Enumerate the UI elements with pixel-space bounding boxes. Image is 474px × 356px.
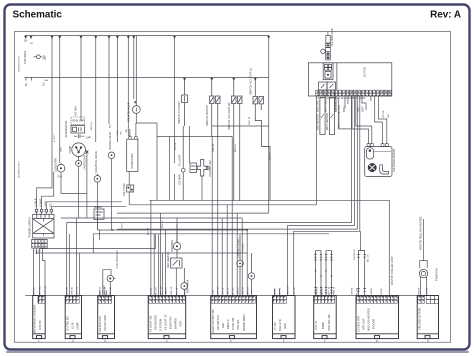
defrost switch S5 — [171, 258, 182, 268]
svg-text:DR SWITCH: DR SWITCH — [216, 315, 220, 330]
svg-text:ICE DR: ICE DR — [383, 110, 385, 118]
connector J9 — [417, 296, 438, 339]
svg-text:B+: B+ — [24, 82, 28, 86]
svg-text:FZ LIGHT SW: FZ LIGHT SW — [149, 315, 153, 332]
svg-text:GRN 18: GRN 18 — [288, 286, 290, 295]
junction dot A — [111, 229, 113, 231]
svg-text:GRN 16: GRN 16 — [334, 286, 336, 295]
svg-text:CC DRN HTR: CC DRN HTR — [356, 316, 360, 332]
condenser motor M2 — [57, 163, 65, 172]
wire drop x81 to alternator — [80, 36, 82, 122]
second bus junction arrows — [183, 78, 257, 81]
svg-text:GRY 18: GRY 18 — [110, 286, 112, 294]
svg-text:PANTRY ROLLER ASSY: PANTRY ROLLER ASSY — [390, 256, 394, 285]
ice door motor M4 — [365, 147, 392, 177]
svg-text:HZ: HZ — [43, 57, 47, 61]
svg-text:TAN/W: TAN/W — [370, 287, 373, 295]
wire board west line C — [117, 96, 357, 229]
svg-text:WHT: WHT — [122, 222, 124, 228]
svg-text:COMP: COMP — [75, 322, 79, 330]
wire water valve down — [111, 159, 113, 230]
svg-text:CABINET LIGHT: CABINET LIGHT — [236, 238, 240, 258]
svg-text:EVAP FAN: EVAP FAN — [169, 316, 173, 329]
svg-text:SCHEM NOTE 2: SCHEM NOTE 2 — [19, 161, 21, 178]
svg-text:DC: DC — [49, 203, 53, 207]
svg-text:YEL/BLK: YEL/BLK — [243, 243, 245, 252]
svg-text:ICE BOX FAN: ICE BOX FAN — [98, 316, 102, 332]
fuse F1 — [327, 32, 329, 36]
svg-text:GRY: GRY — [361, 106, 365, 112]
overload protector — [76, 157, 82, 167]
condenser fan loop — [103, 270, 111, 276]
wire sparkle down — [86, 154, 88, 218]
svg-text:BLK 16: BLK 16 — [322, 287, 324, 295]
svg-text:ORG 18: ORG 18 — [171, 286, 173, 295]
junction dot C — [36, 252, 38, 254]
svg-text:AC PCB: AC PCB — [363, 67, 367, 77]
riser wires box D — [151, 200, 177, 295]
svg-text:ALTERNATOR: ALTERNATOR — [64, 120, 68, 137]
svg-text:115V 60HZ: 115V 60HZ — [23, 51, 27, 64]
wire drop x135.25 to valve — [135, 36, 137, 106]
svg-text:LT CTRL BD: LT CTRL BD — [65, 316, 69, 331]
svg-text:L1 BLK: L1 BLK — [34, 198, 38, 207]
svg-text:ORG: ORG — [61, 147, 63, 152]
wire board pin a — [316, 96, 318, 205]
svg-text:ISOLATION VALVE: ISOLATION VALVE — [94, 151, 98, 174]
svg-text:OVERLOAD: OVERLOAD — [83, 155, 87, 170]
svg-text:1 2 3 4 5: 1 2 3 4 5 — [33, 251, 42, 253]
svg-text:FZ LIGHT SC: FZ LIGHT SC — [164, 314, 168, 330]
switch S2 pair (SWITCH PANTRY) — [210, 78, 221, 137]
svg-text:VIO 16: VIO 16 — [222, 287, 224, 295]
svg-text:GRY: GRY — [117, 130, 119, 135]
svg-text:SWITCH TO LIGHT: SWITCH TO LIGHT — [177, 101, 181, 124]
lamp L4 — [321, 49, 325, 53]
heater loop HL2 — [325, 251, 333, 296]
bus junction arrows — [24, 36, 270, 39]
svg-text:GRY 16: GRY 16 — [217, 286, 219, 294]
svg-text:YELLOW GUTTER: YELLOW GUTTER — [418, 308, 422, 330]
wire board west line D — [294, 96, 360, 296]
riser wires box F — [275, 289, 280, 296]
thermostat TH1 — [127, 185, 134, 192]
wire board west line A — [67, 96, 352, 223]
svg-text:ICE WTR VALVE: ICE WTR VALVE — [126, 102, 130, 122]
svg-text:ICE MKR PWR: ICE MKR PWR — [330, 28, 334, 46]
svg-text:GRN/YEL: GRN/YEL — [45, 284, 47, 294]
alternator U1 — [71, 126, 85, 133]
aux lamp L3 — [248, 253, 254, 296]
svg-text:GRY/W: GRY/W — [427, 286, 429, 294]
svg-text:RUN CAP: RUN CAP — [73, 119, 85, 123]
wire dispenser down — [128, 171, 130, 185]
wire mid v157 — [156, 137, 158, 201]
wire mid v189.5 — [189, 126, 191, 163]
svg-text:BLU 18: BLU 18 — [156, 287, 158, 295]
wire elbow to motor pin3 — [375, 96, 383, 144]
routing line l4 — [98, 229, 248, 231]
svg-text:PUMP FAN: PUMP FAN — [434, 268, 438, 281]
svg-text:BRN 18: BRN 18 — [235, 144, 237, 152]
svg-text:GRY/W 18: GRY/W 18 — [354, 249, 356, 260]
svg-text:BRN: BRN — [342, 106, 346, 112]
connector J2 — [65, 296, 81, 339]
wire board stub d — [362, 96, 366, 110]
wire iso valve down — [96, 182, 98, 230]
svg-text:SCHEM NOTE 1: SCHEM NOTE 1 — [19, 55, 21, 72]
svg-text:DEF HEATER: DEF HEATER — [166, 252, 170, 268]
svg-text:BLK 18: BLK 18 — [148, 227, 150, 235]
second bus ticks — [26, 78, 32, 81]
svg-text:LED: LED — [221, 323, 225, 328]
svg-text:WHT 18: WHT 18 — [161, 286, 163, 295]
svg-text:BLK 14: BLK 14 — [34, 287, 36, 295]
svg-text:YEL 18: YEL 18 — [175, 142, 177, 150]
pantry LED DS1 — [190, 160, 209, 177]
wire board west line B — [288, 96, 355, 296]
svg-text:GRD: GRD — [283, 323, 287, 329]
svg-text:DR HEATER: DR HEATER — [154, 315, 158, 330]
board pin header row1 — [316, 90, 391, 93]
power supply PS1 — [33, 214, 54, 238]
svg-text:WHT NL: WHT NL — [77, 286, 79, 295]
wire h123 drop — [156, 123, 158, 137]
svg-text:B- WHT: B- WHT — [54, 134, 56, 142]
svg-text:WHT 16: WHT 16 — [329, 286, 331, 295]
svg-text:WHT HEATER: WHT HEATER — [325, 113, 329, 130]
relay K1 — [319, 82, 328, 90]
wire drop x109 to water valve — [108, 36, 110, 125]
wires pump fan down — [421, 219, 427, 296]
riser wires box B — [67, 218, 80, 296]
cabinet light L2 — [237, 234, 244, 295]
svg-text:CAP: CAP — [86, 136, 92, 140]
svg-text:Rev: A: Rev: A — [430, 9, 461, 20]
wire drop x174.5 — [174, 36, 176, 164]
svg-text:VIO: VIO — [356, 108, 360, 112]
svg-text:PNK: PNK — [185, 290, 187, 295]
svg-text:BLK LINE: BLK LINE — [315, 100, 319, 112]
pump fan loop — [420, 261, 428, 269]
upper mid horizontal h136 — [157, 136, 232, 138]
svg-text:HTR OUT: HTR OUT — [361, 318, 365, 330]
compressor motor M1 — [72, 143, 86, 157]
wire cond down — [61, 172, 87, 193]
wires power supply down — [34, 248, 46, 295]
svg-text:RED 18: RED 18 — [100, 286, 102, 294]
wire drop x52 to power supply — [37, 36, 52, 210]
pin dot overlays — [32, 90, 425, 303]
connector J4 — [148, 296, 186, 339]
svg-text:RED 14: RED 14 — [91, 122, 93, 130]
motor duct — [380, 165, 389, 174]
routing line l2 — [117, 212, 269, 214]
wire valve V3 down — [136, 113, 157, 123]
switch S4 pair (SWITCH NC LIGHT L) — [253, 78, 270, 201]
svg-text:DAMPER: DAMPER — [174, 318, 178, 329]
svg-text:ICE DOOR MOTOR: ICE DOOR MOTOR — [392, 149, 396, 172]
svg-text:N WHT: N WHT — [39, 198, 43, 207]
riser wires box C — [100, 230, 107, 296]
junction dot B — [246, 229, 248, 231]
wire board stub e — [370, 96, 372, 101]
svg-text:GRN 18: GRN 18 — [213, 143, 215, 152]
wire drop x117.4 — [116, 36, 118, 143]
svg-text:SIG: SIG — [388, 114, 390, 118]
svg-text:COMP: COMP — [68, 145, 72, 153]
wire board stub c — [347, 96, 349, 104]
wire defrost down — [175, 268, 177, 296]
relay K2 — [327, 82, 336, 90]
wire led down — [201, 176, 203, 200]
svg-text:COND MTR: COND MTR — [53, 158, 57, 172]
wire thermostat down — [128, 192, 130, 205]
heater loop HL1 — [314, 251, 322, 296]
capacitor C1 — [74, 134, 84, 138]
wire drop x95.75 to isolation valve — [95, 36, 97, 143]
svg-text:LIGHT PANTRY SW: LIGHT PANTRY SW — [211, 309, 215, 333]
power supply feed w4 — [51, 207, 126, 210]
svg-text:BLK HEATER: BLK HEATER — [316, 114, 320, 130]
wire HL3 feed — [359, 231, 361, 250]
dispenser top pins — [129, 137, 138, 140]
svg-text:RAIL HTR: RAIL HTR — [278, 319, 282, 331]
connector J3 — [98, 296, 115, 339]
power supply lower header — [32, 239, 47, 248]
svg-text:WATER VALVE: WATER VALVE — [108, 131, 112, 149]
wire elbow to motor pin2 — [356, 96, 372, 144]
svg-text:TAN: TAN — [125, 128, 128, 133]
dispenser A1 — [127, 139, 138, 171]
svg-text:DISPENSER: DISPENSER — [130, 153, 134, 168]
condenser fan motor M3 — [103, 275, 116, 295]
border bottom shadow — [6, 351, 469, 353]
svg-text:VIO 18: VIO 18 — [177, 287, 179, 295]
wire mid v169.5 — [169, 137, 171, 201]
svg-text:BLU 18: BLU 18 — [368, 254, 370, 262]
svg-text:WHT/B: WHT/B — [280, 287, 282, 295]
connector J7 — [314, 296, 337, 339]
wire elbow to motor pin1 — [352, 96, 369, 144]
svg-text:STAT: STAT — [179, 320, 183, 327]
switch S1 box (SWITCH TO LIGHT) — [182, 78, 188, 127]
svg-text:AC: AC — [42, 82, 46, 86]
svg-text:LT J10: LT J10 — [273, 322, 277, 330]
rheostat R1 — [94, 209, 104, 219]
svg-text:KEEP R: KEEP R — [226, 319, 230, 329]
svg-text:1 3 5 7 9 11 13 15 17 19 21 23: 1 3 5 7 9 11 13 15 17 19 21 23 25 27 29 … — [316, 96, 366, 100]
power supply top pins — [35, 209, 52, 214]
svg-text:FLA: FLA — [58, 175, 63, 179]
connector J1 — [33, 296, 46, 339]
svg-text:5A: 5A — [24, 39, 27, 43]
routing line l7 — [93, 234, 329, 253]
svg-text:Schematic: Schematic — [13, 9, 63, 20]
wire drop x133.8 — [133, 36, 135, 100]
svg-text:RED BL: RED BL — [316, 286, 318, 295]
svg-text:PANTRY MULLION HEATER: PANTRY MULLION HEATER — [419, 216, 423, 250]
svg-text:MOLD ICE MOTOR: MOLD ICE MOTOR — [337, 105, 341, 128]
svg-text:BLU/W: BLU/W — [357, 287, 359, 295]
svg-text:PANTRY LED: PANTRY LED — [208, 160, 212, 176]
routing line l9 — [37, 252, 248, 254]
svg-text:BLU 16: BLU 16 — [232, 287, 234, 295]
sparkle junction — [85, 150, 88, 154]
wire drop x128.3 to dispenser pin1 — [128, 36, 130, 137]
valve V3 top — [132, 106, 140, 114]
svg-text:ORG/B: ORG/B — [351, 287, 353, 295]
power supply feed w3 — [46, 202, 122, 210]
svg-text:MAKER BRKT: MAKER BRKT — [242, 314, 246, 331]
svg-text:VIO/W: VIO/W — [381, 287, 383, 294]
svg-text:MONEYBAR COOLERS: MONEYBAR COOLERS — [33, 304, 37, 333]
svg-text:VIO: VIO — [121, 131, 123, 135]
svg-text:STIR PDL SW: STIR PDL SW — [327, 314, 331, 331]
alternator cap dashed box — [71, 117, 85, 124]
svg-text:CD FAN GRD: CD FAN GRD — [103, 315, 107, 331]
svg-text:BLK RD: BLK RD — [67, 286, 69, 294]
svg-text:LT DR SW: LT DR SW — [231, 317, 235, 330]
svg-text:LT R J1: LT R J1 — [314, 321, 318, 330]
svg-text:BRN 18: BRN 18 — [105, 286, 107, 294]
svg-text:BRN 16: BRN 16 — [247, 286, 249, 294]
motor rotor — [368, 163, 376, 171]
second bus — [25, 77, 270, 79]
svg-text:ICE TSTAT: ICE TSTAT — [122, 183, 126, 196]
svg-text:CCM: CCM — [212, 290, 214, 295]
svg-text:ICE MKR: ICE MKR — [178, 174, 182, 185]
connector J8 — [356, 296, 399, 339]
svg-text:115V 60: 115V 60 — [38, 320, 42, 330]
power supply feed w2 — [42, 172, 54, 209]
connector strip J10 — [326, 44, 331, 61]
svg-text:BLK/W: BLK/W — [275, 287, 277, 295]
board pin header row2 — [316, 93, 391, 96]
freezer sensor B1 — [173, 224, 180, 258]
svg-text:30A: 30A — [44, 79, 48, 82]
svg-text:RED 18: RED 18 — [270, 152, 272, 160]
svg-text:WHT 14: WHT 14 — [40, 286, 42, 295]
svg-text:L2 J4: L2 J4 — [70, 322, 74, 329]
control board U2 — [308, 63, 391, 96]
connector J6 — [273, 296, 296, 339]
routing line l10 — [61, 217, 242, 219]
svg-text:FREEZER: FREEZER — [170, 240, 174, 252]
svg-text:RED/W: RED/W — [419, 287, 421, 295]
routing line r1 — [150, 200, 390, 295]
rail wire labels — [34, 284, 429, 294]
pump fan M5 — [419, 269, 427, 277]
svg-text:ALT 40A: ALT 40A — [74, 106, 78, 116]
routing line l8 — [40, 234, 156, 249]
FL light L1 — [181, 126, 185, 200]
motor top pins — [367, 144, 388, 147]
top power bus — [25, 35, 270, 37]
wire mold ice motor — [338, 98, 351, 129]
bottom rail — [25, 295, 438, 297]
wire bus end drop x268.75 — [268, 36, 270, 214]
svg-text:YEL/BL: YEL/BL — [151, 287, 153, 295]
svg-text:PNK 18: PNK 18 — [162, 220, 164, 228]
battery symbol — [34, 55, 42, 59]
svg-text:ORG 18: ORG 18 — [249, 116, 251, 125]
riser wires box E — [212, 137, 247, 296]
wire board stub b — [344, 96, 346, 108]
upper mid horizontal h126 — [212, 125, 269, 127]
svg-text:SWITCH PANTRY: SWITCH PANTRY — [205, 104, 209, 126]
svg-text:GRD: GRD — [44, 201, 48, 207]
svg-text:D SCREW: D SCREW — [159, 318, 163, 331]
wire overload down — [78, 166, 80, 218]
wire drop x59.75 to cond motor — [59, 36, 61, 164]
wire board stub a — [335, 96, 337, 112]
svg-text:MULLION HEATER: MULLION HEATER — [366, 308, 370, 331]
svg-text:SWITCH NC LIGHT (L): SWITCH NC LIGHT (L) — [249, 68, 253, 95]
svg-text:STE VAL: STE VAL — [236, 319, 240, 330]
svg-text:BRKR: BRKR — [321, 322, 325, 329]
svg-text:B DOOR: B DOOR — [371, 319, 375, 329]
svg-text:POWER SUPPLY: POWER SUPPLY — [28, 217, 32, 238]
heater leg H2 — [329, 98, 334, 135]
svg-text:TAN 16: TAN 16 — [236, 287, 239, 295]
svg-text:TAN 18: TAN 18 — [165, 287, 168, 295]
heater leg H1 — [320, 98, 325, 135]
svg-text:YEL 16: YEL 16 — [227, 287, 229, 295]
wire rheostat down — [97, 219, 99, 230]
connector index numbers — [38, 339, 429, 343]
heater loop HL3 — [357, 251, 366, 296]
svg-text:FL LIGHT: FL LIGHT — [178, 154, 182, 166]
svg-text:RED 16: RED 16 — [242, 286, 244, 294]
connector J5 — [211, 296, 257, 339]
misc wire labels — [19, 42, 391, 262]
switch S3 pair (SWITCH NC LIGHT R) — [232, 78, 243, 202]
svg-text:ORG BL: ORG BL — [72, 286, 74, 295]
svg-text:YEL 18: YEL 18 — [294, 287, 296, 295]
svg-text:RHEO: RHEO — [95, 205, 103, 209]
wire elbow to motor pin4 — [379, 96, 387, 144]
svg-text:BLU: BLU — [110, 123, 112, 128]
routing line l1 — [129, 204, 316, 206]
defrost terminator — [181, 268, 188, 296]
